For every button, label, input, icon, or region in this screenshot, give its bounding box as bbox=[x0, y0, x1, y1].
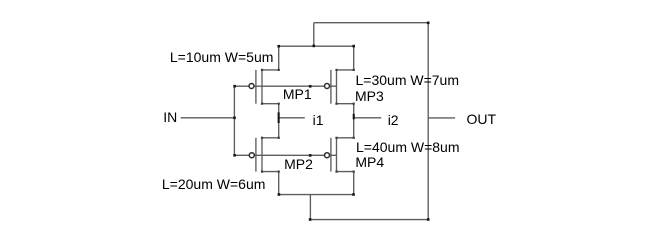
wire MP3 source step bbox=[337, 103, 354, 105]
junction MP3 drain rail corner bbox=[352, 45, 355, 48]
junction MP2 channel source end bbox=[261, 171, 263, 173]
label MP3 bbox=[355, 89, 384, 103]
junction gate row1 wire joint bbox=[309, 85, 312, 88]
label IN bbox=[163, 110, 177, 124]
transistor MP3 gate bubble bbox=[325, 84, 330, 89]
junction node i2 bbox=[353, 114, 355, 120]
wire gate row2: IN to MP2 gate and MP4 gate bbox=[234, 154, 336, 156]
junction node i1 bbox=[278, 112, 280, 123]
junction MP3 channel source end bbox=[335, 103, 337, 105]
label L=10um W=5um (MP1 size) bbox=[170, 50, 274, 64]
wire node i1 stub bbox=[279, 117, 305, 119]
label node i2 bbox=[388, 113, 399, 127]
wire node i2 stub bbox=[354, 117, 382, 119]
label L=20um W=6um (MP2 size) bbox=[162, 177, 266, 191]
wire MP4 source step bbox=[337, 172, 354, 195]
transistor MP4 gate bar bbox=[330, 138, 332, 172]
wire IN lead bbox=[181, 117, 235, 119]
wire riser to outer rail bbox=[313, 23, 315, 47]
junction riser tee bbox=[313, 45, 316, 48]
junction IN-to-MP1-gate corner bbox=[233, 85, 236, 88]
junction MP2 drain step corner bbox=[278, 137, 280, 139]
wire gate row1: IN to MP1 gate and MP3 gate bbox=[234, 85, 336, 87]
junction MP1 source step corner bbox=[278, 103, 280, 105]
wire right rail bbox=[427, 23, 429, 220]
label MP1 bbox=[283, 87, 312, 101]
wire MP1 drain step bbox=[262, 46, 279, 70]
wire node i2 vertical (MP3 source to MP4 drain) bbox=[353, 104, 355, 138]
wire MP4 drain step bbox=[337, 137, 354, 139]
wire outer top rail bbox=[314, 22, 428, 24]
wire node i1 vertical (MP1 source to MP2 drain) bbox=[278, 104, 280, 138]
junction MP1 channel drain end bbox=[261, 69, 263, 71]
wire bottom source bus (MP2 source to MP4 source) bbox=[279, 194, 354, 196]
transistor MP1 gate bar bbox=[255, 70, 257, 104]
junction IN tee bbox=[233, 117, 236, 120]
junction MP2 source bus corner bbox=[278, 193, 281, 196]
junction MP2 channel drain end bbox=[261, 137, 263, 139]
transistor MP1 gate bubble bbox=[249, 84, 254, 89]
junction bottom tap corner bbox=[309, 218, 312, 221]
wire bottom tap bbox=[309, 195, 311, 220]
junction MP1 channel source end bbox=[261, 103, 263, 105]
junction MP1 drain rail corner bbox=[277, 45, 280, 48]
junction MP3 channel drain end bbox=[335, 69, 337, 71]
junction IN-to-MP2-gate corner bbox=[233, 154, 236, 157]
label OUT bbox=[467, 112, 497, 126]
wire OUT lead bbox=[428, 117, 455, 119]
transistor MP3 gate bar bbox=[330, 70, 332, 104]
label L=40um W=8um (MP4 size) bbox=[356, 140, 460, 154]
transistor MP4 channel bar bbox=[336, 137, 338, 172]
wire input vertical (IN node) bbox=[233, 86, 235, 155]
wire inner top rail (MP1 drain to MP3 drain) bbox=[279, 45, 354, 47]
label MP2 bbox=[284, 157, 313, 171]
junction MP4 source step corner bbox=[353, 171, 355, 173]
wire MP1 source step bbox=[262, 103, 279, 105]
junction MP4 drain step corner bbox=[353, 137, 355, 139]
transistor MP2 gate bar bbox=[255, 138, 257, 172]
junction MP4 source bus corner bbox=[352, 193, 355, 196]
wire MP3 drain step bbox=[337, 46, 354, 70]
junction MP4 channel source end bbox=[335, 171, 337, 173]
label MP4 bbox=[355, 155, 384, 169]
transistor MP2 gate bubble bbox=[249, 153, 254, 158]
junction MP3 drain step corner bbox=[353, 69, 355, 71]
junction MP2 source step corner bbox=[278, 171, 280, 173]
wire bottom rail bbox=[310, 219, 428, 221]
label L=30um W=7um (MP3 size) bbox=[356, 73, 460, 87]
transistor MP4 gate bubble bbox=[325, 153, 330, 158]
junction MP3 source step corner bbox=[353, 103, 355, 105]
junction gate row2 wire joint bbox=[309, 154, 312, 157]
junction outer rail right corner bbox=[427, 22, 430, 25]
transistor MP1 channel bar bbox=[261, 70, 263, 105]
wire MP2 drain step bbox=[262, 137, 279, 139]
wire MP2 source step bbox=[262, 172, 279, 195]
junction MP4 channel drain end bbox=[335, 137, 337, 139]
transistor MP2 channel bar bbox=[261, 137, 263, 172]
transistor MP3 channel bar bbox=[336, 70, 338, 105]
junction bottom rail right corner bbox=[427, 218, 430, 221]
label node i1 bbox=[313, 113, 324, 127]
junction MP1 drain step corner bbox=[278, 69, 280, 71]
